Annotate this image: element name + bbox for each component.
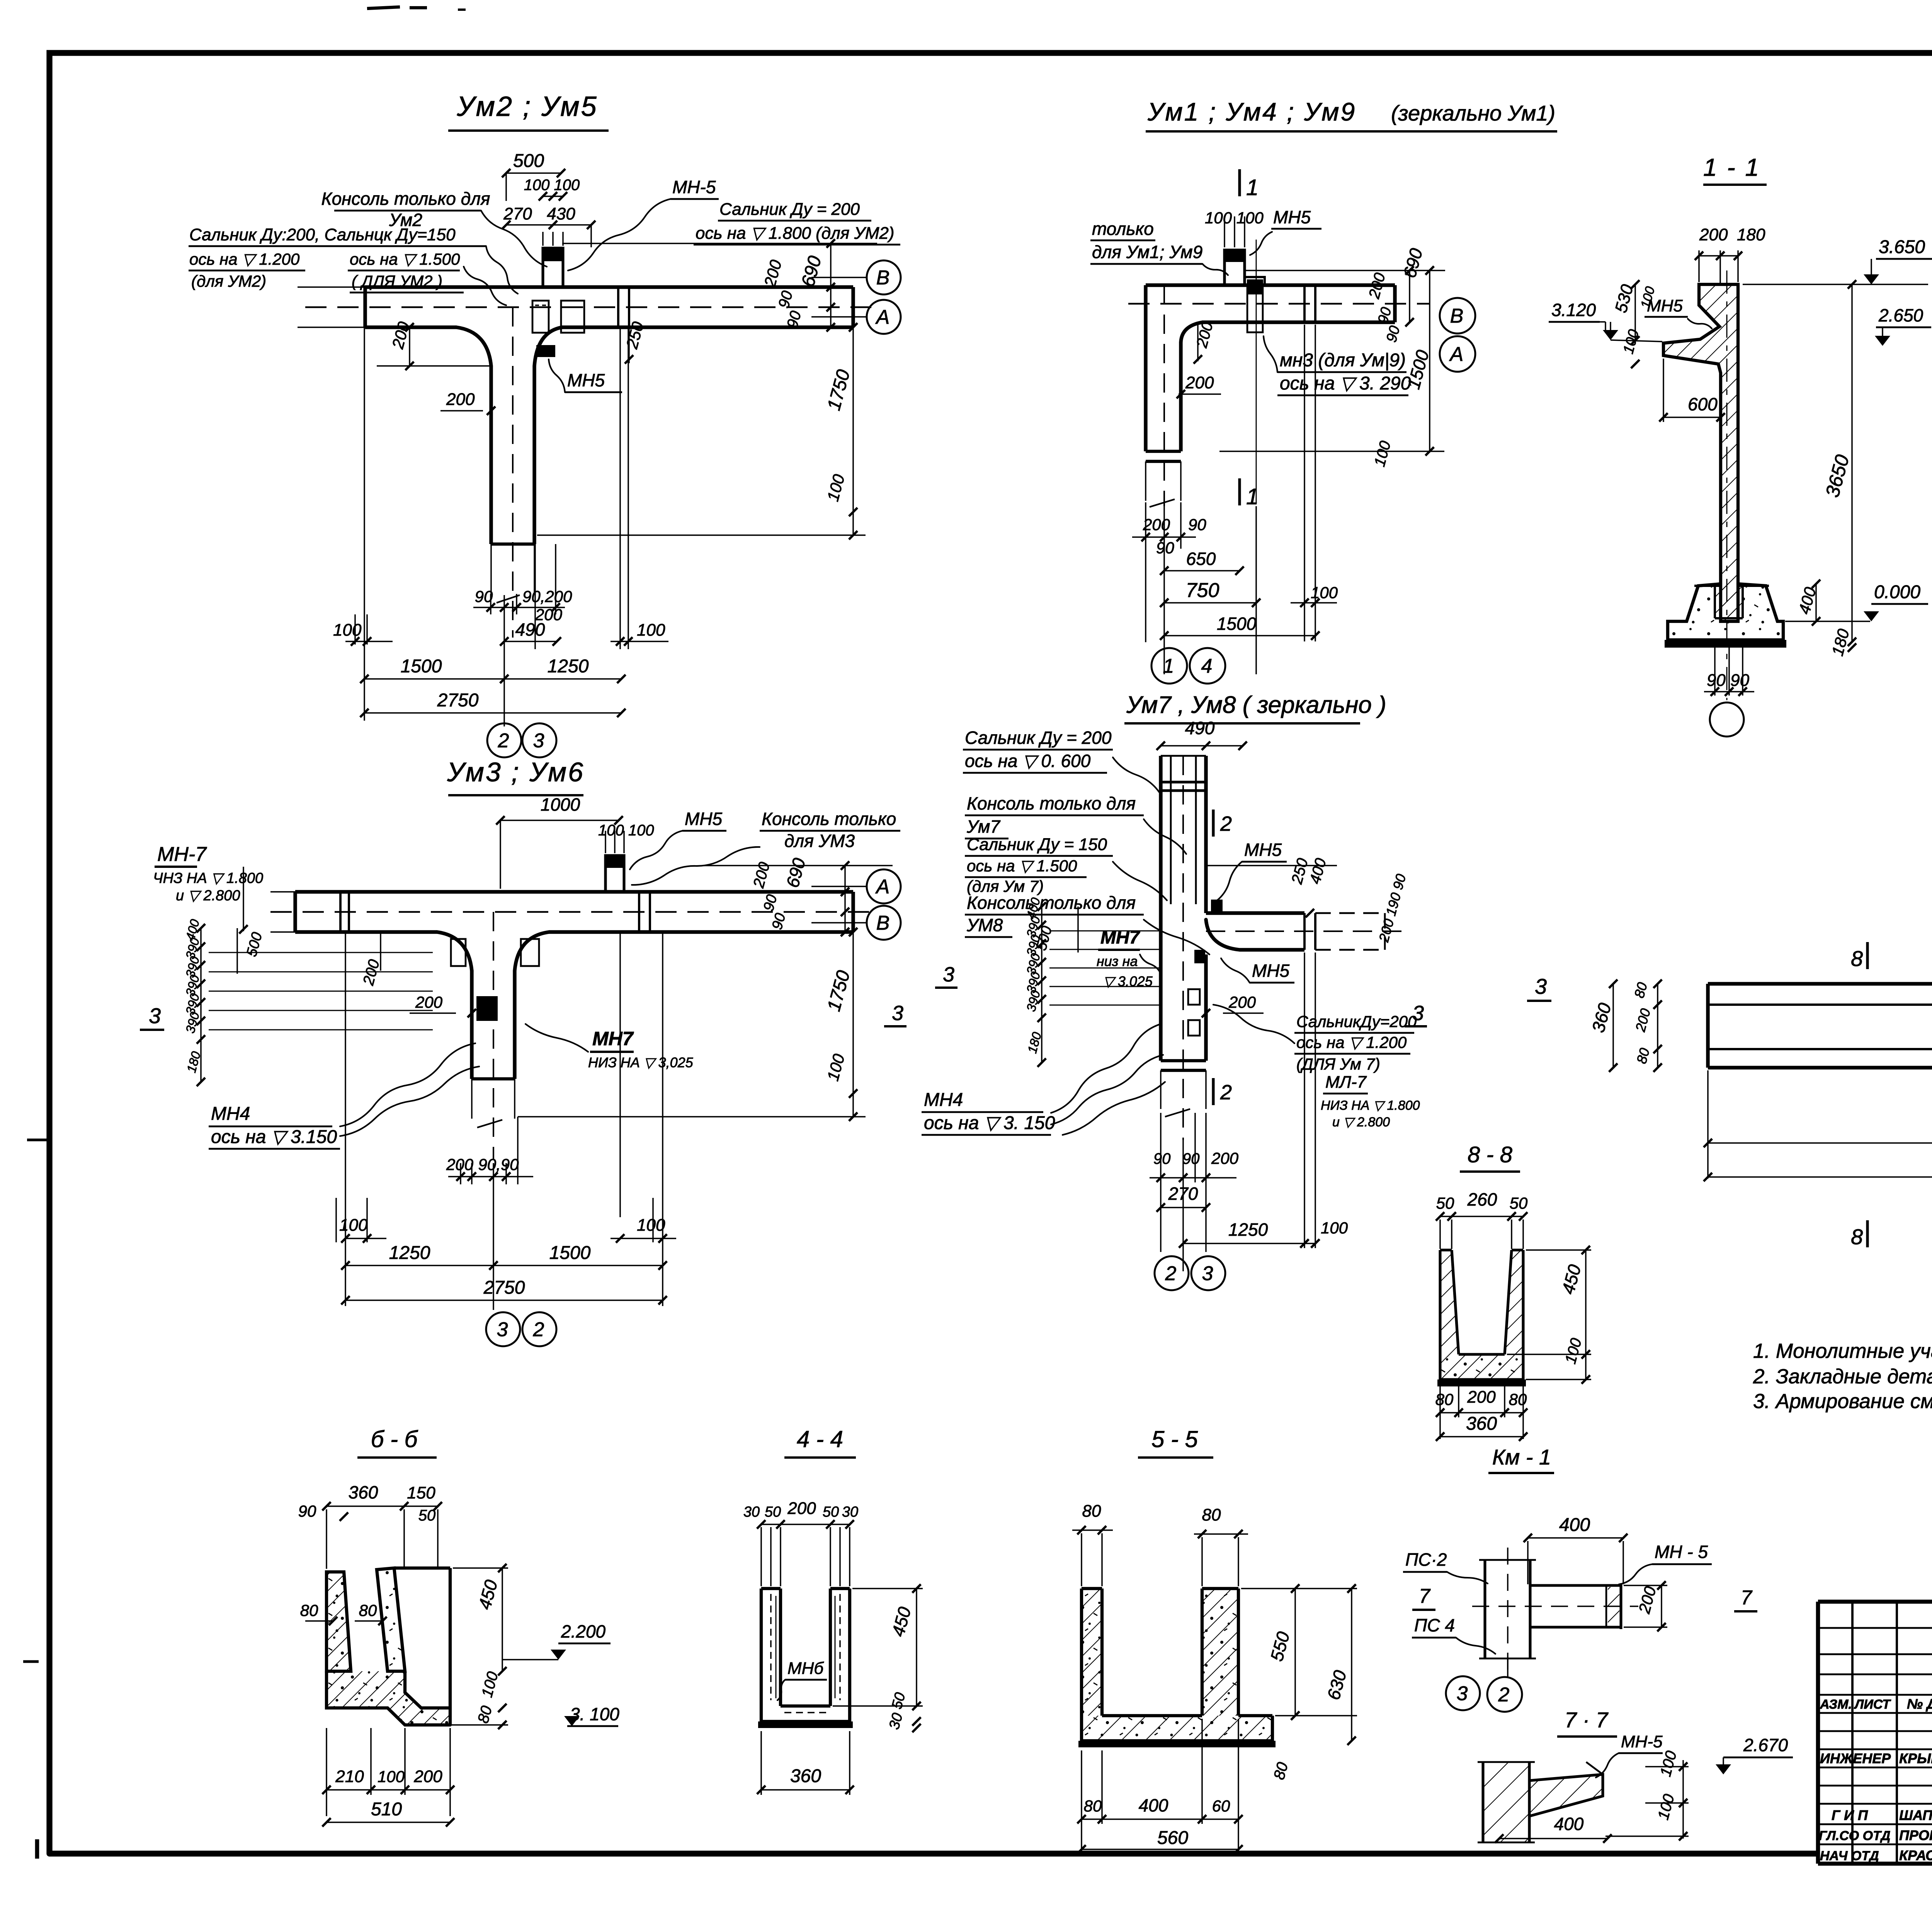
svg-text:100: 100	[1311, 583, 1338, 602]
УМ7 plates	[1188, 900, 1223, 1036]
svg-text:4 - 4: 4 - 4	[797, 1426, 843, 1452]
detail ПС2 dim 400	[1524, 1515, 1628, 1584]
svg-text:2: 2	[1498, 1684, 1510, 1706]
svg-text:3.120: 3.120	[1551, 300, 1596, 320]
svg-text:(для УМ2): (для УМ2)	[191, 272, 266, 290]
4-4 dim 360	[757, 1731, 854, 1795]
УМ7 section marks 2	[1213, 810, 1232, 1105]
svg-text:1500: 1500	[549, 1243, 591, 1263]
svg-text:ось на ▽ 3. 150: ось на ▽ 3. 150	[924, 1113, 1055, 1133]
svg-text:90,200: 90,200	[522, 587, 572, 606]
notes line 2	[1753, 1365, 1932, 1388]
section 1-1 dim 3650	[1821, 280, 1856, 646]
6-6 bottom dims	[322, 1728, 454, 1816]
УМ3 dim 1000	[496, 794, 623, 889]
6-6 dims 80 80	[300, 1601, 387, 1625]
УМ7 bottom extensions	[1161, 952, 1315, 1271]
УМ3 dim 200 90 90	[446, 1155, 533, 1181]
УМ7 dim 490	[1156, 718, 1247, 750]
svg-text:360: 360	[790, 1766, 821, 1786]
УМ3 label МН-7 stack	[153, 843, 263, 934]
svg-text:2: 2	[1220, 812, 1232, 835]
svg-text:1: 1	[1163, 655, 1174, 677]
svg-text:3. 100: 3. 100	[570, 1704, 619, 1724]
svg-text:90: 90	[1182, 1150, 1200, 1167]
svg-text:100: 100	[637, 621, 665, 640]
svg-text:750: 750	[1186, 579, 1219, 602]
svg-text:ГЛ.СО ОТД: ГЛ.СО ОТД	[1819, 1828, 1890, 1843]
detail label МН-5	[1619, 1542, 1712, 1584]
УМ7 left dim stack	[1024, 896, 1159, 1067]
view УМ1 corner outline	[1128, 240, 1430, 507]
svg-text:90,90: 90,90	[478, 1155, 519, 1174]
УМ7 right dims 250 400	[1206, 856, 1409, 944]
svg-text:3: 3	[943, 963, 954, 986]
svg-text:260: 260	[1467, 1189, 1497, 1209]
svg-text:8: 8	[1851, 1225, 1863, 1249]
svg-text:1250: 1250	[389, 1243, 430, 1263]
view УМ2 slab and stem outline	[298, 287, 871, 638]
svg-text:ось на ▽ 1.200: ось на ▽ 1.200	[1296, 1033, 1407, 1051]
svg-text:МН5: МН5	[1252, 961, 1290, 981]
svg-text:600: 600	[1688, 394, 1718, 414]
svg-text:3: 3	[1535, 974, 1547, 998]
svg-text:500: 500	[513, 151, 544, 171]
svg-text:100: 100	[378, 1767, 405, 1786]
svg-text:80: 80	[1509, 1390, 1527, 1408]
УМ2 dim 100 100	[524, 177, 580, 201]
view УМ7 cross outline	[1161, 756, 1406, 1140]
svg-text:50: 50	[1510, 1194, 1528, 1212]
svg-text:3. Армирование см. лист КЖ9: 3. Армирование см. лист КЖ9	[1753, 1390, 1932, 1413]
5-5 dim 560	[1077, 1828, 1243, 1854]
УМ1 section mark 1 bottom	[1240, 478, 1259, 509]
section 5-5 title	[1138, 1426, 1213, 1458]
УМ2 label МНS	[549, 359, 622, 392]
4-4 top dims	[743, 1499, 858, 1586]
svg-text:только: только	[1092, 219, 1154, 239]
svg-text:90: 90	[1156, 539, 1174, 557]
8-8 dims 50 260 50	[1436, 1189, 1528, 1249]
УМ7 label Сальник 150 ось 1.500	[965, 835, 1167, 900]
7-7 elevation 2.670	[1716, 1735, 1793, 1774]
svg-text:200: 200	[415, 993, 443, 1011]
svg-text:МН5: МН5	[1244, 840, 1282, 860]
УМ1 dim 200 b	[1177, 373, 1221, 398]
УМ1 dim 750	[1160, 579, 1260, 607]
svg-text:ось на ▽ 1.500: ось на ▽ 1.500	[350, 250, 460, 268]
svg-text:2.650: 2.650	[1878, 305, 1923, 325]
svg-text:100: 100	[333, 621, 362, 640]
svg-text:МН-5: МН-5	[1621, 1732, 1663, 1751]
svg-text:МН7: МН7	[592, 1028, 634, 1049]
detail section marks 7	[1412, 1585, 1757, 1611]
svg-text:Сальник Ду = 200: Сальник Ду = 200	[965, 728, 1112, 748]
svg-text:МН5: МН5	[685, 809, 723, 829]
svg-text:Консоль только для: Консоль только для	[967, 793, 1136, 813]
svg-text:Г И П: Г И П	[1832, 1807, 1868, 1823]
detail axis circles 3 2	[1446, 1658, 1522, 1712]
svg-text:3: 3	[892, 1002, 903, 1025]
svg-text:50: 50	[418, 1507, 436, 1524]
УМ7 section marks 3	[884, 963, 1427, 1026]
УМ7 label МН5 b	[1221, 958, 1294, 983]
УМ3 label МН5	[630, 809, 726, 869]
svg-text:5 - 5: 5 - 5	[1151, 1426, 1198, 1452]
УМ2 dim 100 right	[537, 472, 866, 535]
УМ7 dim 90 90 200	[1150, 1149, 1239, 1182]
УМ2 dim 2750	[360, 690, 626, 717]
svg-text:180: 180	[1737, 225, 1765, 244]
8-8 dim 450 100	[1507, 1246, 1591, 1384]
svg-text:360: 360	[349, 1482, 378, 1502]
section 1-1 elevation 3.650	[1743, 237, 1932, 284]
8-8 channel section	[1437, 1250, 1526, 1386]
svg-text:ПРОНИН: ПРОНИН	[1899, 1827, 1932, 1843]
УМ1 section mark 1 top	[1240, 169, 1259, 200]
detail label ПС4	[1412, 1615, 1495, 1654]
УМ3 axis circles А В	[867, 869, 901, 940]
УМ2 dim 250	[622, 320, 647, 364]
УМ2 dim 200 fillet	[377, 320, 491, 370]
4-4 dim 450	[833, 1584, 923, 1710]
УМ3 dim 2750	[341, 1277, 667, 1305]
section 1-1 elevation 0.000	[1785, 582, 1928, 621]
УМ2 dim 200b	[535, 606, 563, 624]
section 1-1 dim 90 90	[1704, 648, 1754, 696]
svg-text:150: 150	[407, 1483, 435, 1502]
svg-text:ШАПИРО: ШАПИРО	[1899, 1807, 1932, 1823]
svg-text:50: 50	[823, 1504, 839, 1520]
svg-text:ось на ▽ 1.500: ось на ▽ 1.500	[967, 857, 1077, 875]
svg-text:200: 200	[1211, 1149, 1239, 1167]
svg-text:▽ 3.025: ▽ 3.025	[1103, 973, 1153, 989]
svg-text:430: 430	[547, 204, 575, 223]
svg-text:Консоль только для: Консоль только для	[321, 189, 490, 209]
svg-text:7: 7	[1419, 1585, 1431, 1607]
svg-text:2750: 2750	[437, 690, 479, 711]
svg-text:МН4: МН4	[924, 1090, 963, 1110]
УМ2 label Консоль только для УМ2	[321, 189, 547, 267]
8-8 dims 80 200 80	[1435, 1386, 1527, 1439]
6-6 dim 450	[453, 1564, 508, 1675]
5-5 top dims	[1072, 1502, 1248, 1586]
svg-text:2: 2	[533, 1318, 544, 1341]
svg-text:200: 200	[1699, 225, 1728, 244]
svg-text:650: 650	[1186, 549, 1216, 569]
svg-text:1: 1	[1246, 175, 1259, 200]
УМ3 dim 200 fillet	[360, 932, 383, 987]
svg-text:МН5: МН5	[1273, 207, 1311, 227]
svg-text:100: 100	[339, 1216, 368, 1235]
svg-text:3: 3	[149, 1004, 161, 1028]
УМ7 dim 200	[1202, 993, 1264, 1017]
svg-text:НИЗ НА ▽ 3,025: НИЗ НА ▽ 3,025	[588, 1055, 694, 1070]
УМ2 dim 200 stem	[440, 390, 495, 415]
УМ2 label МН-5	[568, 177, 719, 270]
svg-text:1250: 1250	[548, 656, 589, 677]
section 1-1 top dims 200 180	[1695, 225, 1765, 284]
svg-text:( ДЛЯ УМ2 ): ( ДЛЯ УМ2 )	[352, 272, 442, 290]
svg-text:270: 270	[503, 204, 532, 223]
svg-text:А: А	[875, 876, 890, 898]
svg-text:2: 2	[1220, 1081, 1232, 1104]
svg-text:ось на ▽ 1.800 (для УМ2): ось на ▽ 1.800 (для УМ2)	[696, 224, 895, 243]
view УМ3;УМ6 title	[447, 757, 585, 795]
УМ3 label МН4 ось 3.150	[209, 1043, 479, 1149]
svg-text:80: 80	[300, 1601, 318, 1619]
svg-text:200: 200	[446, 390, 475, 409]
section 1-1 title	[1703, 153, 1767, 185]
6-6 dim 510	[322, 1799, 454, 1827]
section 1-1 dim 600	[1659, 359, 1725, 422]
svg-text:МН-5: МН-5	[672, 177, 716, 197]
svg-text:ось на ▽ 3. 290: ось на ▽ 3. 290	[1280, 373, 1411, 394]
svg-text:(зеркально Ум1): (зеркально Ум1)	[1391, 101, 1555, 125]
svg-text:ПС·2: ПС·2	[1405, 1550, 1447, 1570]
detail label ПС-2	[1403, 1550, 1488, 1584]
УМ7 label МН5 a	[1217, 840, 1287, 900]
УМ1 right rotated dims	[1219, 246, 1445, 469]
6-6 dims 100 80	[408, 1670, 508, 1729]
УМ3 axis circles 3 2	[486, 1312, 556, 1346]
section 7-7 title	[1557, 1708, 1617, 1737]
section 1-1 axis circle	[1710, 270, 1744, 736]
УМ1 dim 650	[1160, 549, 1244, 575]
svg-text:80: 80	[1435, 1390, 1454, 1408]
svg-text:200: 200	[1467, 1388, 1496, 1407]
svg-text:Ум3 ; Ум6: Ум3 ; Ум6	[447, 757, 585, 787]
УМ2 plate squares on slab	[532, 301, 584, 333]
ЛТм1 dim 4450	[1704, 1153, 1932, 1181]
УМ2 embedded plate МН5 tab	[543, 232, 563, 287]
svg-text:и ▽ 2.800: и ▽ 2.800	[176, 888, 240, 904]
svg-text:б - б: б - б	[371, 1426, 418, 1452]
7-7 dim 400	[1495, 1814, 1612, 1843]
УМ1 axis circles В А	[1440, 298, 1475, 372]
УМ7 label Сальник 200 ось 1.200	[1213, 1005, 1417, 1073]
svg-text:ось на ▽ 0. 600: ось на ▽ 0. 600	[965, 751, 1091, 771]
svg-text:4: 4	[1201, 655, 1213, 677]
4-4 label МНб	[777, 1659, 827, 1700]
5-5 bottom dims	[1077, 1719, 1243, 1851]
6-6 elevation 2.200	[502, 1621, 611, 1660]
svg-text:УМ8: УМ8	[966, 915, 1003, 935]
7-7 dims 100 100	[1605, 1749, 1689, 1840]
ЛТм1 left dims	[1588, 980, 1662, 1072]
svg-text:Сальник Ду = 150: Сальник Ду = 150	[967, 835, 1107, 854]
svg-text:Ум7 , Ум8 ( зеркально ): Ум7 , Ум8 ( зеркально )	[1126, 692, 1386, 718]
svg-text:1500: 1500	[401, 656, 442, 677]
svg-text:400: 400	[1139, 1795, 1168, 1815]
svg-text:30: 30	[743, 1504, 760, 1520]
УМ2 dim 270 430	[502, 204, 595, 247]
8-8 dim 360	[1436, 1413, 1527, 1441]
svg-text:360: 360	[1466, 1413, 1497, 1434]
svg-text:МНб: МНб	[787, 1659, 824, 1678]
УМ1 dim 100	[1291, 583, 1338, 607]
section 1-1 elevation 3.120	[1549, 300, 1662, 342]
УМ3 right rotated dims	[704, 856, 893, 936]
УМ3 label Консоль только для УМ3	[632, 809, 900, 885]
УМ2 bottom extension lines	[355, 327, 628, 726]
5-5 dims 550 630	[1241, 1584, 1357, 1745]
УМ3 plate squares	[451, 939, 539, 1021]
svg-text:100: 100	[637, 1216, 665, 1235]
УМ1 tab МН5	[1225, 250, 1245, 285]
svg-text:1: 1	[1246, 484, 1259, 509]
svg-text:МН7: МН7	[1100, 927, 1141, 948]
4-4 channel section	[758, 1589, 853, 1728]
ЛТм1 section mark 8 bottom	[1851, 1220, 1867, 1249]
svg-text:1000: 1000	[541, 794, 580, 815]
ЛТм1 dim 3770 600 80	[1704, 1070, 1932, 1179]
6-6 corner section	[327, 1568, 450, 1725]
УМ7 axis circles 2 3	[1155, 1256, 1225, 1290]
section 8-8 title	[1460, 1142, 1520, 1172]
УМ2 axis circles В А	[867, 260, 901, 334]
svg-text:3: 3	[1457, 1682, 1468, 1705]
svg-text:50: 50	[765, 1504, 781, 1520]
svg-text:1250: 1250	[1228, 1220, 1268, 1240]
УМ2 label Сальник Ду 200 150	[189, 225, 518, 305]
section 1-1 column concrete	[1663, 284, 1738, 621]
title block header row	[1820, 1696, 1932, 1712]
УМ2 dim 1750	[823, 323, 857, 539]
svg-text:3: 3	[533, 730, 544, 752]
svg-text:для Ум1; Ум9: для Ум1; Ум9	[1092, 242, 1202, 262]
УМ3 dim 100 right	[823, 1052, 857, 1098]
svg-text:НАЧ ОТД: НАЧ ОТД	[1820, 1849, 1879, 1863]
УМ7 label Консоль только для Ум7	[965, 793, 1186, 854]
detail pipe	[1472, 1548, 1638, 1673]
УМ2 dim 490	[500, 619, 561, 646]
7-7 label МН-5	[1596, 1732, 1663, 1777]
УМ1 plate МН3	[1246, 277, 1265, 332]
title block grid left	[1818, 1602, 1932, 1864]
svg-text:60: 60	[1212, 1797, 1230, 1815]
svg-text:90: 90	[298, 1502, 316, 1520]
svg-text:ЛИСТ: ЛИСТ	[1854, 1697, 1891, 1712]
svg-text:2. Закладные детали окрасить э: 2. Закладные детали окрасить эмалью ЭП-1…	[1753, 1365, 1932, 1388]
УМ2 label Сальник 200 ось 1.800	[694, 200, 900, 245]
УМ3 dim 1750	[518, 928, 866, 1121]
УМ1 label только для Ум1 Ум9	[1090, 219, 1228, 275]
УМ2 lower tab МН5	[536, 345, 555, 357]
view УМ2;УМ5 title	[448, 91, 609, 131]
svg-text:2.670: 2.670	[1743, 1735, 1788, 1755]
УМ3 tab МН5	[605, 831, 624, 892]
УМ3 dim 1250 1500	[341, 1243, 667, 1270]
svg-text:и ▽ 2.800: и ▽ 2.800	[1332, 1115, 1390, 1129]
svg-text:МН4: МН4	[211, 1104, 250, 1124]
5-5 channel section	[1078, 1589, 1276, 1747]
УМ7 dim 1250 100	[1179, 1219, 1348, 1248]
svg-text:200: 200	[446, 1155, 474, 1174]
УМ3 dim 100s	[339, 1216, 676, 1243]
svg-text:90: 90	[475, 587, 493, 606]
view УМ7 title	[1124, 692, 1386, 723]
svg-text:ось на ▽ 3.150: ось на ▽ 3.150	[211, 1127, 337, 1147]
svg-text:Ум2 ; Ум5: Ум2 ; Ум5	[456, 91, 598, 122]
5-5 dim 80r	[1270, 1760, 1291, 1781]
svg-text:мн3 (для Ум|9): мн3 (для Ум|9)	[1280, 350, 1406, 371]
УМ1 bottom extensions	[1146, 325, 1315, 674]
svg-text:50: 50	[1436, 1194, 1454, 1212]
svg-text:для УМ3: для УМ3	[784, 831, 855, 851]
detail dim 200	[1624, 1581, 1667, 1631]
section 1-1 dims 530 100	[1611, 280, 1658, 368]
svg-text:2.200: 2.200	[561, 1621, 606, 1641]
svg-text:80: 80	[1082, 1502, 1101, 1521]
svg-text:низ на: низ на	[1097, 953, 1138, 969]
svg-text:Км - 1: Км - 1	[1492, 1445, 1551, 1469]
svg-text:200: 200	[787, 1499, 816, 1518]
svg-text:АЗМ.: АЗМ.	[1820, 1697, 1852, 1712]
svg-text:Консоль только: Консоль только	[762, 809, 896, 829]
svg-text:Ум7: Ум7	[966, 816, 1000, 837]
УМ7 label МН7 низ 3.025	[1097, 927, 1161, 989]
svg-text:90: 90	[1153, 1150, 1171, 1167]
6-6 elevation 3.100	[564, 1704, 619, 1726]
svg-text:3: 3	[1202, 1262, 1213, 1285]
УМ2 dim 500	[502, 151, 565, 201]
svg-text:3.650: 3.650	[1879, 237, 1925, 257]
4-4 dims 50 30	[886, 1691, 921, 1732]
УМ2 axis circles 2 3	[487, 723, 556, 757]
svg-text:400: 400	[1554, 1814, 1584, 1834]
svg-text:(ДЛЯ Ум 7): (ДЛЯ Ум 7)	[1296, 1055, 1380, 1073]
svg-text:Сальник Ду:200, Сальнцк Ду=150: Сальник Ду:200, Сальнцк Ду=150	[189, 225, 456, 244]
section 4-4 title	[784, 1426, 856, 1458]
svg-text:А: А	[875, 306, 890, 328]
УМ1 dim 1500	[1160, 614, 1320, 640]
УМ7 label МН4 ось 3.150	[922, 1024, 1165, 1135]
svg-text:80: 80	[359, 1601, 377, 1619]
svg-text:200: 200	[413, 1767, 442, 1786]
УМ2 dim 100 rightb	[611, 621, 668, 646]
svg-text:80: 80	[1084, 1797, 1102, 1815]
svg-text:510: 510	[371, 1799, 402, 1820]
svg-text:8: 8	[1851, 946, 1863, 971]
svg-text:1. Монолитные участки замарк: 1. Монолитные участки замаркированы на л…	[1753, 1340, 1932, 1362]
УМ3 dim 200 stem	[410, 993, 476, 1017]
svg-text:МЛ-7: МЛ-7	[1325, 1073, 1367, 1092]
svg-text:100 100: 100 100	[598, 822, 654, 839]
svg-text:1 - 1: 1 - 1	[1703, 153, 1760, 181]
svg-text:270: 270	[1168, 1184, 1198, 1204]
УМ3 dim 100 100	[598, 822, 654, 839]
section 6-6 title	[357, 1426, 437, 1458]
section 1-1 label МН5	[1645, 296, 1712, 328]
svg-text:ЧНЗ НА ▽ 1.800: ЧНЗ НА ▽ 1.800	[153, 870, 263, 886]
svg-text:200: 200	[1228, 993, 1256, 1011]
svg-text:1500: 1500	[1217, 614, 1257, 634]
svg-text:100: 100	[1321, 1219, 1348, 1237]
УМ2 dim 1500 1250	[360, 656, 626, 683]
УМ1 dim 200 90	[1132, 515, 1206, 557]
svg-text:КРЫМСКИЙ: КРЫМСКИЙ	[1899, 1750, 1932, 1766]
ЛТм1 section mark 3 left	[1527, 974, 1551, 1001]
svg-text:В: В	[876, 912, 890, 934]
svg-text:8 - 8: 8 - 8	[1468, 1142, 1512, 1167]
svg-text:А: А	[1449, 343, 1464, 366]
УМ3 label МН7 низ 3.025	[526, 1024, 694, 1070]
7-7 shape	[1478, 1762, 1603, 1842]
svg-text:МН - 5: МН - 5	[1655, 1542, 1708, 1562]
svg-text:490: 490	[1185, 718, 1215, 738]
svg-text:2: 2	[498, 730, 509, 752]
